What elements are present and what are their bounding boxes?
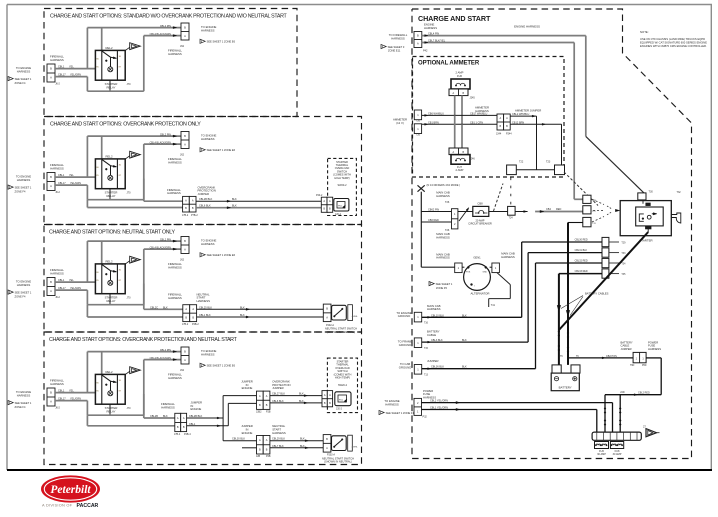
svg-text:YEL: YEL	[69, 279, 74, 282]
svg-text:HARNESS: HARNESS	[17, 69, 31, 73]
svg-text:B: B	[184, 134, 186, 138]
svg-text:ZONE E11: ZONE E11	[388, 49, 401, 53]
svg-text:CBL2B: CBL2B	[150, 415, 158, 418]
svg-text:YEL: YEL	[69, 66, 74, 69]
svg-text:CBL1: CBL1	[189, 423, 196, 426]
svg-text:YEL/GRN: YEL/GRN	[70, 398, 81, 401]
svg-text:BLK: BLK	[163, 415, 168, 418]
svg-text:OPTIONAL AMMETER: OPTIONAL AMMETER	[418, 61, 480, 67]
svg-text:REL2: REL2	[106, 370, 113, 374]
svg-text:A: A	[184, 142, 186, 146]
svg-text:NOTE:: NOTE:	[640, 30, 649, 34]
svg-text:REL2: REL2	[106, 259, 113, 263]
svg-text:HARNESS: HARNESS	[17, 178, 31, 182]
svg-text:CBL4 BLACK/GRN: CBL4 BLACK/GRN	[150, 246, 172, 249]
svg-text:SW20-2: SW20-2	[337, 184, 347, 187]
svg-text:4 WHL: 4 WHL	[352, 447, 359, 449]
svg-text:Peterbilt: Peterbilt	[50, 484, 91, 496]
svg-text:CHARGE AND START OPTIONS: NEUT: CHARGE AND START OPTIONS: NEUTRAL START …	[49, 230, 176, 236]
svg-text:B: B	[184, 25, 186, 29]
svg-text:J245: J245	[470, 96, 476, 99]
svg-text:CBL1: CBL1	[58, 279, 65, 282]
svg-text:HARNESS: HARNESS	[161, 405, 175, 409]
svg-text:SEE SHEET 1 ZONE F1: SEE SHEET 1 ZONE F1	[386, 411, 415, 415]
svg-text:RELAY: RELAY	[107, 85, 116, 89]
svg-text:CBL1: CBL1	[58, 174, 65, 177]
svg-text:T26: T26	[445, 229, 450, 232]
svg-text:J7B-2: J7B-2	[182, 214, 189, 217]
svg-text:T6D: T6D	[630, 365, 635, 367]
svg-text:HARNESS: HARNESS	[201, 352, 215, 356]
svg-text:CBL1: CBL1	[58, 390, 65, 393]
svg-text:CBL1 BLK: CBL1 BLK	[199, 314, 211, 317]
svg-text:B: B	[50, 391, 52, 395]
svg-text:A: A	[326, 315, 328, 319]
svg-text:(SHOWN IN NEUTRAL): (SHOWN IN NEUTRAL)	[327, 330, 355, 334]
svg-text:ENGINE: ENGINE	[242, 431, 253, 435]
svg-text:T30: T30	[649, 191, 654, 194]
svg-text:CB1 1 CRN: CB1 1 CRN	[470, 121, 483, 124]
svg-text:J7B-4: J7B-4	[174, 433, 181, 436]
svg-text:CBL10 BLK: CBL10 BLK	[431, 314, 444, 317]
svg-text:BLK: BLK	[232, 205, 237, 208]
svg-text:A: A	[184, 247, 186, 251]
svg-text:JUMPER: JUMPER	[427, 359, 439, 363]
svg-text:CB2 POS: CB2 POS	[606, 355, 617, 358]
svg-text:A: A	[50, 400, 52, 404]
svg-text:P20-2: P20-2	[316, 194, 323, 197]
svg-text:GROUND: GROUND	[399, 343, 411, 347]
svg-text:P2B-2: P2B-2	[192, 323, 199, 326]
svg-text:SEE SHEET 1: SEE SHEET 1	[15, 185, 32, 189]
svg-text:USE ON 379 CHASSIS (LAND RIDE): USE ON 379 CHASSIS (LAND RIDE) TRUCKS EQ…	[640, 37, 705, 41]
svg-text:P2B: P2B	[266, 455, 271, 458]
svg-text:CBL2 PIN: CBL2 PIN	[160, 25, 171, 28]
svg-text:HARNESS: HARNESS	[436, 256, 450, 260]
svg-text:CHARGE AND START OPTIONS: STAN: CHARGE AND START OPTIONS: STANDARD W/O O…	[50, 14, 287, 20]
svg-text:CBL30 BLK: CBL30 BLK	[232, 438, 245, 441]
svg-text:2 AMP: 2 AMP	[456, 168, 464, 172]
svg-text:RELAY: RELAY	[107, 409, 116, 413]
svg-text:BATTERY CABLES: BATTERY CABLES	[585, 292, 609, 296]
svg-text:GROUND: GROUND	[399, 366, 411, 370]
svg-text:ZONE F4: ZONE F4	[15, 294, 27, 298]
svg-text:ZONE F4: ZONE F4	[15, 405, 27, 409]
svg-text:CB62 PIN: CB62 PIN	[428, 209, 439, 212]
svg-text:A DIVISION OF: A DIVISION OF	[42, 503, 73, 508]
svg-text:B: B	[50, 67, 52, 71]
svg-text:J70: J70	[127, 407, 132, 410]
svg-text:ALTERNATOR: ALTERNATOR	[471, 292, 490, 296]
svg-text:B: B	[417, 34, 419, 38]
svg-text:30 AMP: 30 AMP	[597, 453, 606, 456]
svg-text:HARNESS: HARNESS	[424, 26, 437, 30]
svg-text:BLK: BLK	[299, 393, 304, 396]
svg-text:YEL/GRN: YEL/GRN	[70, 74, 81, 77]
svg-text:J70: J70	[127, 297, 132, 300]
svg-text:JUMPER: JUMPER	[621, 347, 632, 351]
svg-text:CB6 RED: CB6 RED	[428, 219, 439, 222]
svg-text:J70: J70	[127, 192, 132, 195]
svg-text:J70: J70	[127, 83, 132, 86]
svg-text:A: A	[326, 446, 328, 450]
svg-text:P244: P244	[506, 133, 512, 136]
svg-text:T26: T26	[445, 201, 450, 204]
svg-text:J2B: J2B	[256, 455, 261, 458]
svg-text:REL2: REL2	[106, 154, 113, 158]
svg-text:T23: T23	[546, 160, 551, 163]
svg-text:CBL27 BLK: CBL27 BLK	[272, 393, 285, 396]
svg-text:B: B	[326, 437, 328, 441]
svg-text:(N 13 DIFFERS 4X4 MODE ): (N 13 DIFFERS 4X4 MODE )	[427, 183, 461, 187]
svg-text:HIGH TEMP): HIGH TEMP)	[334, 176, 349, 180]
svg-text:CHARGE AND START OPTIONS: OVER: CHARGE AND START OPTIONS: OVERCRANK PROT…	[49, 337, 238, 343]
svg-text:T41: T41	[491, 304, 496, 307]
svg-text:CBL2 PIN: CBL2 PIN	[160, 349, 171, 352]
svg-text:CBL6 BLK: CBL6 BLK	[199, 205, 211, 208]
svg-text:CBL30 RED: CBL30 RED	[575, 239, 588, 242]
svg-text:HARNESS: HARNESS	[50, 382, 64, 386]
svg-text:J6-2: J6-2	[55, 296, 60, 299]
svg-text:ZONE F5: ZONE F5	[436, 286, 448, 290]
svg-text:GROUND: GROUND	[398, 314, 410, 318]
svg-text:ZONE F4: ZONE F4	[15, 81, 27, 85]
svg-text:HIGH TEMP): HIGH TEMP)	[335, 376, 350, 380]
svg-text:P32: P32	[423, 416, 428, 419]
svg-text:HARNESS: HARNESS	[168, 376, 182, 380]
svg-text:CABLE: CABLE	[427, 333, 436, 337]
svg-text:RELAY: RELAY	[107, 194, 116, 198]
svg-text:B: B	[184, 349, 186, 353]
svg-text:CIRCUIT BREAKER: CIRCUIT BREAKER	[468, 222, 492, 226]
svg-text:SEE SHEET 1: SEE SHEET 1	[15, 401, 32, 405]
svg-text:GND: GND	[483, 272, 488, 274]
svg-text:A: A	[50, 289, 52, 293]
svg-text:FU6: FU6	[457, 74, 463, 78]
svg-text:RED: RED	[556, 208, 561, 211]
svg-text:CBL2 PIN: CBL2 PIN	[160, 238, 171, 241]
svg-text:HARNESS: HARNESS	[50, 166, 64, 170]
svg-text:CB4: CB4	[546, 208, 551, 211]
svg-text:CB6 WHI/BLU: CB6 WHI/BLU	[428, 112, 444, 115]
svg-text:B: B	[50, 175, 52, 179]
svg-text:CBL4 BLACK/GRN: CBL4 BLACK/GRN	[150, 357, 172, 360]
svg-text:HARNESS: HARNESS	[391, 37, 405, 41]
svg-text:BATTERY: BATTERY	[559, 385, 572, 389]
svg-text:SW20-2: SW20-2	[338, 384, 348, 387]
svg-text:HARNESS: HARNESS	[201, 137, 215, 141]
svg-text:J2B2: J2B2	[256, 411, 262, 414]
svg-text:CBL1 YEL/ORN: CBL1 YEL/ORN	[430, 407, 448, 410]
svg-text:SEE SHEET 1 ZONE E6: SEE SHEET 1 ZONE E6	[207, 253, 236, 257]
svg-text:P2B: P2B	[266, 411, 271, 414]
svg-text:BLK: BLK	[240, 306, 245, 309]
svg-text:A: A	[184, 34, 186, 38]
svg-text:CBL2 WHI/BLU: CBL2 WHI/BLU	[512, 113, 530, 116]
svg-text:A: A	[184, 358, 186, 362]
svg-text:A: A	[50, 184, 52, 188]
svg-text:CB1 BRN: CB1 BRN	[428, 121, 439, 124]
svg-text:SEE SHEET 1 ZONE E6: SEE SHEET 1 ZONE E6	[207, 40, 236, 44]
svg-text:HARNESS: HARNESS	[201, 242, 215, 246]
svg-text:CBL36 BLK: CBL36 BLK	[431, 366, 444, 369]
svg-text:30 AMP: 30 AMP	[613, 453, 622, 456]
svg-text:YEL/GRN: YEL/GRN	[70, 182, 81, 185]
svg-text:BLK: BLK	[462, 366, 467, 369]
svg-text:P42: P42	[423, 50, 428, 53]
svg-text:BLK: BLK	[240, 314, 245, 317]
svg-text:T22: T22	[519, 160, 524, 163]
svg-text:EQUIPPED W/ CAT SIGNATURE 600: EQUIPPED W/ CAT SIGNATURE 600 SERIES ENG…	[640, 41, 707, 45]
svg-text:CBL1: CBL1	[58, 66, 65, 69]
svg-text:HARNESS: HARNESS	[475, 109, 489, 113]
svg-text:YEL: YEL	[69, 390, 74, 393]
svg-text:HARNESS: HARNESS	[501, 255, 515, 259]
svg-text:B: B	[184, 239, 186, 243]
svg-text:B: B	[50, 280, 52, 284]
svg-text:CHARGE AND START OPTIONS: OVER: CHARGE AND START OPTIONS: OVERCRANK PROT…	[50, 122, 201, 128]
svg-text:CBL17: CBL17	[58, 287, 66, 290]
svg-text:CBL3 BLK: CBL3 BLK	[431, 339, 443, 342]
svg-text:YEL: YEL	[69, 174, 74, 177]
svg-text:4 WHL: 4 WHL	[352, 316, 359, 318]
svg-text:CBL4 PIN: CBL4 PIN	[428, 33, 439, 36]
svg-text:J244: J244	[496, 133, 502, 136]
svg-text:A: A	[417, 42, 419, 46]
svg-text:HARNESS: HARNESS	[197, 299, 211, 303]
svg-text:J246: J246	[470, 158, 476, 161]
svg-text:BLK: BLK	[462, 314, 467, 317]
svg-text:PACCAR: PACCAR	[77, 503, 99, 509]
svg-text:SEE SHEET 3: SEE SHEET 3	[388, 45, 405, 49]
svg-text:HARNESS: HARNESS	[17, 393, 31, 397]
svg-text:J20-2: J20-2	[336, 408, 343, 411]
svg-text:CB12 BRN: CB12 BRN	[512, 121, 524, 124]
svg-text:BLK: BLK	[163, 306, 168, 309]
svg-text:J6-2: J6-2	[55, 191, 60, 194]
svg-text:24D: 24D	[620, 391, 625, 394]
svg-text:HARNESS: HARNESS	[436, 236, 450, 240]
svg-text:HARNESS: HARNESS	[201, 28, 215, 32]
svg-text:CBL2 RED: CBL2 RED	[638, 391, 650, 394]
svg-text:HARNESS: HARNESS	[427, 307, 441, 311]
svg-text:HARNESS: HARNESS	[168, 52, 182, 56]
svg-text:BLK: BLK	[300, 438, 305, 441]
svg-text:CBL2 PIN: CBL2 PIN	[160, 133, 171, 136]
svg-text:P7B-2: P7B-2	[191, 214, 198, 217]
svg-text:HARNESS: HARNESS	[436, 194, 450, 198]
svg-text:POS: POS	[466, 272, 471, 274]
svg-text:HARNESS: HARNESS	[50, 271, 64, 275]
svg-text:A: A	[50, 76, 52, 80]
svg-text:CBL4 BLACK/GRN: CBL4 BLACK/GRN	[150, 33, 172, 36]
svg-text:SEE SHEET 1 ZONE E6: SEE SHEET 1 ZONE E6	[207, 364, 236, 368]
svg-text:(12 V): (12 V)	[396, 121, 404, 125]
svg-text:CBL31 BLK: CBL31 BLK	[575, 249, 588, 252]
svg-text:P6D: P6D	[642, 365, 647, 367]
svg-text:CBL25 BLK: CBL25 BLK	[199, 306, 212, 309]
svg-text:(SHOWN IN NEUTRAL): (SHOWN IN NEUTRAL)	[324, 460, 352, 464]
svg-text:CBL17: CBL17	[58, 74, 66, 77]
svg-text:SEE SHEET 1: SEE SHEET 1	[436, 282, 453, 286]
svg-text:CBL32 RED: CBL32 RED	[575, 260, 588, 263]
svg-text:CBL7 BLK: CBL7 BLK	[272, 445, 284, 448]
svg-text:CHARGE AND START: CHARGE AND START	[418, 14, 491, 23]
svg-text:ZONE F4: ZONE F4	[15, 189, 27, 193]
svg-text:J7B-2: J7B-2	[182, 323, 189, 326]
svg-text:BLK: BLK	[232, 198, 237, 201]
svg-text:AMMETER JUMPER: AMMETER JUMPER	[515, 109, 541, 113]
svg-text:J6-2: J6-2	[55, 407, 60, 410]
svg-text:HARNESS: HARNESS	[17, 283, 31, 287]
svg-text:T32: T32	[677, 191, 682, 194]
svg-text:HARNESS: HARNESS	[167, 191, 181, 195]
svg-text:CBL2B BLK: CBL2B BLK	[189, 415, 203, 418]
svg-text:GEN1: GEN1	[473, 256, 481, 260]
svg-text:ENGINES WITH CM870 CMS ENGINE: ENGINES WITH CM870 CMS ENGINE CONTROLLER…	[640, 44, 707, 48]
svg-text:J20-2: J20-2	[335, 213, 342, 216]
svg-text:ENGINE: ENGINE	[191, 407, 202, 411]
svg-text:CB8: CB8	[477, 202, 483, 206]
svg-text:HARNESS: HARNESS	[168, 265, 182, 269]
svg-text:BLK: BLK	[299, 400, 304, 403]
svg-text:CBL7 BLK/YEL: CBL7 BLK/YEL	[428, 40, 446, 43]
svg-text:BLK: BLK	[300, 445, 305, 448]
svg-text:B: B	[326, 307, 328, 311]
svg-text:HARNESS: HARNESS	[168, 160, 182, 164]
svg-text:J6-2: J6-2	[55, 83, 60, 86]
svg-text:CBL33 RED: CBL33 RED	[575, 270, 588, 273]
svg-text:SEE SHEET 1 ZONE E6: SEE SHEET 1 ZONE E6	[207, 148, 236, 152]
svg-text:P2B-4: P2B-4	[184, 433, 191, 436]
svg-text:CBL29 BLK: CBL29 BLK	[272, 438, 285, 441]
svg-text:HARNESS: HARNESS	[385, 403, 399, 407]
svg-text:CBL17: CBL17	[58, 398, 66, 401]
svg-text:CBL4 BLACK/GRN: CBL4 BLACK/GRN	[150, 141, 172, 144]
svg-text:ENGINE: ENGINE	[242, 386, 253, 390]
svg-text:CBL2 YEL/ORN: CBL2 YEL/ORN	[430, 400, 448, 403]
svg-text:JUMPER: JUMPER	[272, 386, 284, 390]
svg-text:SEE SHEET 1: SEE SHEET 1	[15, 290, 32, 294]
svg-text:P202-A: P202-A	[327, 453, 335, 456]
svg-text:CBL17: CBL17	[58, 182, 66, 185]
svg-text:HARNESS: HARNESS	[50, 58, 64, 62]
svg-text:JUMPER: JUMPER	[198, 192, 210, 196]
svg-text:BLK: BLK	[462, 339, 467, 342]
svg-text:CBL2B BLK: CBL2B BLK	[199, 198, 213, 201]
svg-text:SEE SHEET 1: SEE SHEET 1	[15, 77, 32, 81]
svg-text:HARNESS: HARNESS	[168, 296, 182, 300]
svg-text:HARNESS: HARNESS	[648, 347, 661, 351]
svg-text:CBL6 BLK: CBL6 BLK	[272, 400, 284, 403]
svg-text:HARNESS: HARNESS	[272, 431, 286, 435]
svg-text:T24: T24	[509, 216, 514, 219]
svg-text:CBL2C: CBL2C	[150, 306, 158, 309]
svg-text:YEL/GRN: YEL/GRN	[70, 287, 81, 290]
svg-text:REL2: REL2	[106, 46, 113, 50]
svg-text:RELAY: RELAY	[107, 299, 116, 303]
svg-text:ENGINE HARNESS: ENGINE HARNESS	[514, 25, 540, 29]
